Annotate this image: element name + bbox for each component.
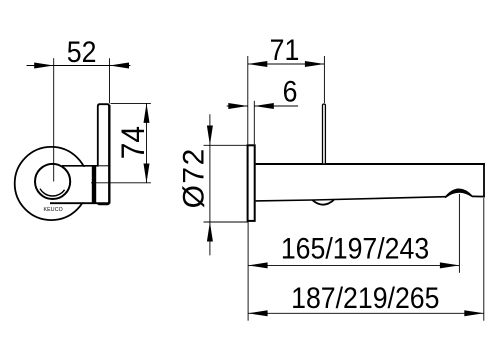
lever bar outline bbox=[98, 104, 109, 204]
dim 71 arrow left bbox=[248, 61, 267, 67]
dim 52 extension right bbox=[109, 58, 111, 103]
svg-text:Ø72: Ø72 bbox=[178, 147, 211, 208]
dim 6 right extension bbox=[253, 101, 255, 145]
dim 52 arrow right bbox=[110, 63, 130, 69]
dim 187 line bbox=[248, 312, 484, 314]
hub top line bbox=[62, 165, 99, 167]
dim 52 arrow left bbox=[34, 63, 54, 69]
spout top edge bbox=[256, 163, 485, 165]
centerline vertical (52 left extension) bbox=[53, 58, 55, 181]
svg-text:KEUCO: KEUCO bbox=[43, 207, 62, 213]
underside dome bbox=[313, 200, 335, 205]
hub top line across lever bbox=[99, 165, 110, 167]
dim 6 line right tail bbox=[254, 105, 298, 107]
svg-text:165/197/243: 165/197/243 bbox=[281, 232, 429, 266]
dim 165 arrow right bbox=[440, 262, 460, 268]
svg-text:74: 74 bbox=[115, 126, 151, 159]
escutcheon circle bbox=[15, 147, 88, 220]
outlet arch crescent bbox=[445, 189, 472, 197]
dim d72 arrow up bbox=[207, 222, 213, 242]
dim 187 arrow left bbox=[248, 310, 268, 316]
spout bottom edge bbox=[256, 197, 446, 201]
dim 6 arrow left bbox=[228, 103, 248, 109]
dim 187 arrow right bbox=[464, 310, 484, 316]
dim 74 top extension bbox=[111, 102, 151, 104]
hub bottom line bbox=[50, 202, 110, 204]
knob outer circle bbox=[35, 164, 70, 199]
tip extension bbox=[483, 198, 485, 321]
dim 52 line bbox=[27, 65, 131, 67]
dim 71/6 left extension bbox=[247, 56, 249, 144]
spout bottom tip segment bbox=[472, 195, 485, 197]
dim 71 arrow right bbox=[305, 61, 325, 67]
dim 71 line bbox=[248, 63, 325, 65]
dim 74 line bbox=[146, 103, 148, 183]
hub white mask bbox=[53, 167, 96, 203]
dim 6 arrow right bbox=[254, 103, 273, 109]
hub end cap bbox=[92, 165, 96, 204]
centerline horizontal (74 bottom extension) bbox=[91, 182, 151, 184]
dim d72 line bbox=[209, 114, 211, 255]
spout right edge bbox=[483, 163, 485, 197]
svg-text:52: 52 bbox=[67, 35, 97, 69]
svg-text:6: 6 bbox=[283, 75, 298, 109]
dim d72 bottom extension bbox=[204, 221, 249, 223]
knob inner edge arc bbox=[40, 189, 65, 196]
dim 165 line bbox=[248, 264, 459, 266]
outlet center extension bbox=[458, 194, 460, 273]
lever bar right edge bbox=[108, 105, 110, 204]
wall extension bottom bbox=[247, 222, 249, 321]
dim 165 arrow left bbox=[248, 262, 268, 268]
wall plate bbox=[248, 145, 255, 221]
lever bar fill bbox=[97, 103, 110, 205]
dim d72 arrow down bbox=[207, 126, 213, 146]
pin bbox=[323, 104, 326, 164]
dim 74 arrow down bbox=[144, 164, 150, 184]
dim 6 line left tail bbox=[227, 105, 248, 107]
svg-text:71: 71 bbox=[270, 34, 300, 68]
svg-text:187/219/265: 187/219/265 bbox=[291, 282, 439, 316]
dim 74 arrow up bbox=[144, 103, 150, 123]
dim d72 top extension bbox=[204, 144, 248, 146]
dim 71 right extension bbox=[323, 56, 325, 103]
